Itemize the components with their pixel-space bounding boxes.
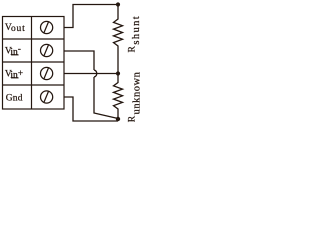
svg-text:Gnd: Gnd [6, 94, 23, 104]
svg-text:Rshunt: Rshunt [127, 15, 142, 53]
svg-text:Vin+: Vin+ [5, 69, 23, 81]
svg-text:Vout: Vout [5, 23, 26, 34]
svg-text:Vin-: Vin- [5, 45, 21, 58]
svg-text:Runknown: Runknown [127, 71, 142, 122]
